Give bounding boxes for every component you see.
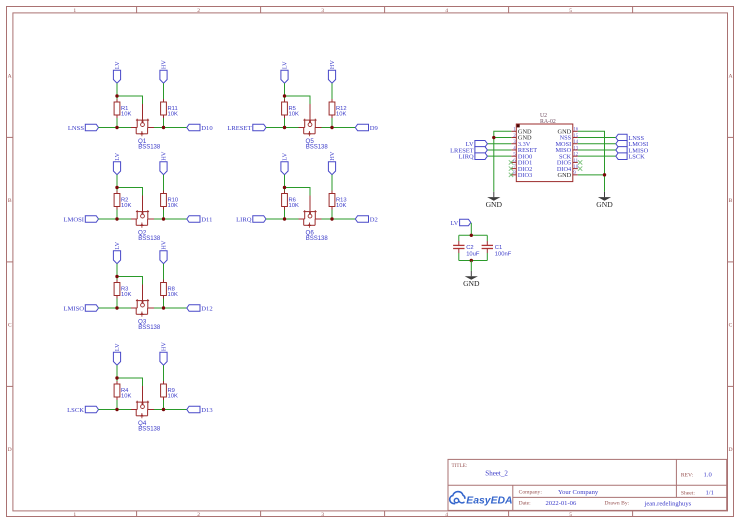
- svg-text:EasyEDA: EasyEDA: [466, 495, 512, 506]
- svg-text:4: 4: [445, 512, 448, 518]
- wire pin2 GND: [494, 137, 512, 139]
- pin 1 GND (left): [511, 128, 532, 136]
- wire to C2: [458, 235, 460, 241]
- wire input port to mosfet: [266, 218, 299, 220]
- pin 11 DIO5 (right): [557, 159, 579, 167]
- junction right on main line: [162, 126, 165, 129]
- svg-text:LSCK: LSCK: [67, 407, 84, 414]
- svg-text:LV: LV: [282, 152, 289, 160]
- net port LMISO: [63, 305, 98, 313]
- no-connect flag: [509, 173, 513, 177]
- net port D13: [187, 406, 214, 414]
- wire cap bottom rail: [459, 260, 488, 262]
- wire LV port to pin: [487, 143, 511, 145]
- wire gate connection: [285, 188, 311, 196]
- svg-text:100nF: 100nF: [495, 252, 512, 258]
- svg-text:Company:: Company:: [519, 489, 543, 495]
- power flag HV Q3 (HV): [160, 240, 168, 264]
- wire resistor to main line (right): [163, 118, 165, 128]
- net port LMOSI: [63, 216, 98, 224]
- no-connect flag: [578, 166, 582, 170]
- svg-text:10: 10: [573, 165, 578, 170]
- wire gate connection: [117, 96, 143, 104]
- no-connect flag: [509, 160, 513, 164]
- wire pin1 GND to ground: [494, 131, 512, 192]
- pin 14 MOSI (right): [555, 140, 578, 148]
- svg-text:A: A: [8, 73, 12, 79]
- transistor Q3 BSS138: [131, 285, 161, 331]
- svg-text:HV: HV: [329, 151, 336, 160]
- transistor Q1 BSS138: [131, 104, 161, 150]
- svg-text:LV: LV: [282, 61, 289, 69]
- junction cap bottom: [470, 259, 473, 262]
- svg-text:D11: D11: [201, 216, 212, 223]
- wire LV flag to rail: [284, 175, 286, 191]
- resistor R6 10K: [282, 191, 299, 210]
- net port LNSS: [616, 134, 645, 142]
- svg-text:10K: 10K: [121, 393, 131, 399]
- svg-text:C1: C1: [495, 245, 502, 251]
- junction GND net left: [492, 136, 495, 139]
- net port LV: [466, 140, 488, 148]
- net port D11: [187, 216, 213, 224]
- wire LIRQ port to pin: [487, 155, 511, 157]
- wire LV port down: [470, 223, 472, 235]
- wire HV flag to resistor: [331, 83, 333, 99]
- wire resistor to main line (left): [116, 400, 118, 410]
- resistor R9 10K: [161, 381, 178, 400]
- wire pin to LMOSI port: [578, 143, 616, 145]
- svg-text:10K: 10K: [168, 111, 178, 117]
- wire gate connection: [117, 378, 143, 386]
- no-connect flag: [509, 166, 513, 170]
- svg-text:Drawn By:: Drawn By:: [605, 500, 630, 506]
- pin 6 DIO1 (left): [511, 159, 532, 167]
- net port D2: [355, 216, 378, 224]
- capacitor C1 100nF: [482, 241, 512, 258]
- wire resistor to main line (right): [331, 118, 333, 128]
- svg-text:D2: D2: [370, 216, 378, 223]
- wire pin16 GND to ground: [578, 131, 605, 192]
- net port D9: [355, 124, 378, 132]
- svg-text:13: 13: [573, 146, 578, 151]
- wire HV flag to resistor: [163, 365, 165, 381]
- resistor R10 10K: [161, 191, 179, 210]
- svg-text:GND: GND: [463, 279, 480, 288]
- svg-text:C: C: [729, 322, 733, 328]
- transistor Q5 BSS138: [299, 104, 329, 150]
- wire LV flag to rail: [116, 365, 118, 381]
- wire resistor to main line (right): [163, 299, 165, 309]
- svg-text:LNSS: LNSS: [68, 125, 84, 132]
- svg-text:HV: HV: [161, 60, 168, 69]
- svg-text:2022-01-06: 2022-01-06: [546, 500, 577, 507]
- junction LV rail: [283, 186, 286, 189]
- transistor Q2 BSS138: [131, 196, 161, 242]
- svg-text:10K: 10K: [121, 111, 131, 117]
- svg-text:U2: U2: [540, 113, 547, 119]
- pin 9 GND (right): [558, 171, 578, 179]
- net port LRESET: [227, 124, 266, 132]
- junction LV rail: [283, 94, 286, 97]
- ground GND (left of U2): [486, 192, 503, 209]
- wire HV flag to resistor: [163, 83, 165, 99]
- wire LV flag to rail: [116, 83, 118, 99]
- svg-text:Sheet:: Sheet:: [681, 490, 695, 496]
- svg-text:1.0: 1.0: [704, 472, 713, 479]
- svg-text:HV: HV: [161, 342, 168, 351]
- junction right on main line: [330, 126, 333, 129]
- power flag HV Q2 (HV): [160, 151, 168, 175]
- svg-text:10K: 10K: [168, 203, 178, 209]
- level shifter Q1: LNSS to D10: [68, 60, 213, 151]
- wire HV flag to resistor: [163, 175, 165, 191]
- svg-text:D12: D12: [201, 305, 212, 312]
- svg-text:3: 3: [321, 8, 324, 14]
- junction right on main line: [162, 217, 165, 220]
- svg-text:16: 16: [573, 128, 578, 133]
- title text: [452, 463, 509, 478]
- wire input port to mosfet: [99, 409, 132, 411]
- wire C1 to bottom rail: [486, 253, 488, 261]
- wire gate connection: [117, 277, 143, 285]
- svg-text:15: 15: [573, 134, 578, 139]
- net port LNSS: [68, 124, 99, 132]
- net port LMOSI: [616, 140, 648, 148]
- IC U2 RA-02: [516, 113, 573, 182]
- date row: [519, 500, 692, 507]
- capacitor C2 10uF: [453, 241, 480, 258]
- svg-text:1: 1: [73, 8, 76, 14]
- svg-text:3: 3: [321, 512, 324, 518]
- svg-text:D: D: [728, 447, 732, 453]
- ground GND (right of U2): [596, 192, 613, 209]
- svg-text:LV: LV: [114, 61, 121, 69]
- svg-text:C2: C2: [466, 245, 473, 251]
- wire mosfet to output port: [154, 307, 187, 309]
- junction left on main line: [115, 126, 118, 129]
- svg-text:RA-02: RA-02: [540, 119, 556, 125]
- svg-text:BSS138: BSS138: [138, 325, 161, 331]
- net port LIRQ: [236, 216, 266, 224]
- power flag LV Q4 (LV): [113, 343, 121, 365]
- pin 2 GND (left): [511, 134, 532, 142]
- company row: [519, 489, 599, 496]
- svg-text:LV: LV: [114, 343, 121, 351]
- wire input port to mosfet: [266, 127, 299, 129]
- svg-text:D13: D13: [201, 407, 213, 414]
- power flag HV Q4 (HV): [160, 342, 168, 366]
- power flag HV Q5 (HV): [328, 60, 336, 84]
- resistor R13 10K: [329, 191, 347, 210]
- svg-text:TITLE:: TITLE:: [452, 463, 468, 469]
- transistor Q4 BSS138: [131, 386, 161, 432]
- level shifter Q2: LMOSI to D11: [63, 151, 212, 242]
- wire pin9 GND: [578, 174, 605, 176]
- svg-text:REV:: REV:: [681, 473, 694, 479]
- svg-text:D9: D9: [370, 125, 379, 132]
- wire input port to mosfet: [99, 218, 132, 220]
- svg-text:LMISO: LMISO: [63, 305, 84, 312]
- junction right on main line: [162, 408, 165, 411]
- svg-text:4: 4: [445, 8, 448, 14]
- svg-text:LMOSI: LMOSI: [63, 216, 84, 223]
- title block: [448, 459, 727, 510]
- svg-text:10K: 10K: [168, 393, 178, 399]
- wire pin to LSCK port: [578, 155, 616, 157]
- pin 8 DIO3 (left): [511, 171, 532, 179]
- svg-text:B: B: [729, 198, 733, 204]
- wire mosfet to output port: [322, 218, 356, 220]
- level shifter Q6: LIRQ to D2: [236, 151, 378, 242]
- svg-text:10K: 10K: [121, 203, 131, 209]
- wire input port to mosfet: [99, 307, 132, 309]
- wire resistor to main line (left): [284, 118, 286, 128]
- svg-text:2: 2: [197, 512, 200, 518]
- resistor R12 10K: [329, 99, 347, 118]
- pin 4 RESET (left): [511, 146, 537, 154]
- pin 7 DIO2 (left): [511, 165, 532, 173]
- svg-text:Your Company: Your Company: [558, 489, 599, 496]
- svg-text:LIRQ: LIRQ: [236, 216, 252, 223]
- wire resistor to main line (right): [163, 400, 165, 410]
- wire resistor to main line (right): [331, 210, 333, 220]
- svg-text:A: A: [728, 73, 732, 79]
- transistor Q6 BSS138: [299, 196, 329, 242]
- svg-text:Sheet_2: Sheet_2: [485, 470, 508, 478]
- net port LSCK: [67, 406, 98, 414]
- power flag LV Q1 (LV): [113, 61, 121, 83]
- svg-text:2: 2: [197, 8, 200, 14]
- junction left on main line: [115, 306, 118, 309]
- wire gate connection: [117, 188, 143, 196]
- wire input port to mosfet: [99, 127, 132, 129]
- rev cell: [681, 472, 713, 479]
- wire mosfet to output port: [154, 218, 187, 220]
- svg-text:10K: 10K: [336, 111, 346, 117]
- wire C2 to bottom rail: [458, 253, 460, 261]
- wire resistor to main line (left): [116, 299, 118, 309]
- wire LRESET port to pin: [487, 149, 511, 151]
- pin 10 DIO4 (right): [557, 165, 579, 173]
- svg-text:jean.redelinghuys: jean.redelinghuys: [644, 500, 692, 507]
- wire cap top rail: [459, 234, 488, 236]
- svg-text:LSCK: LSCK: [628, 153, 645, 160]
- svg-text:C: C: [8, 322, 12, 328]
- wire pin to LMISO port: [578, 149, 616, 151]
- wire mosfet to output port: [322, 127, 356, 129]
- svg-text:HV: HV: [161, 151, 168, 160]
- resistor R5 10K: [282, 99, 299, 118]
- wire pin to LNSS port: [578, 137, 616, 139]
- junction LV rail: [115, 376, 118, 379]
- ground GND (decoupling): [463, 271, 480, 288]
- svg-text:LIRQ: LIRQ: [459, 153, 474, 160]
- svg-text:GND: GND: [558, 172, 572, 179]
- resistor R8 10K: [161, 280, 178, 299]
- svg-text:D: D: [8, 447, 12, 453]
- svg-text:BSS138: BSS138: [138, 236, 161, 242]
- junction left on main line: [115, 217, 118, 220]
- svg-text:B: B: [8, 198, 12, 204]
- svg-text:LV: LV: [450, 220, 458, 227]
- net port LV (decoupling): [450, 219, 470, 227]
- power flag LV Q3 (LV): [113, 241, 121, 263]
- svg-text:DIO3: DIO3: [518, 172, 532, 179]
- level shifter Q4: LSCK to D13: [67, 342, 213, 433]
- svg-text:LV: LV: [114, 241, 121, 249]
- resistor R2 10K: [114, 191, 131, 210]
- pin 12 SCK (right): [559, 153, 579, 161]
- junction left on main line: [115, 408, 118, 411]
- svg-text:10K: 10K: [336, 203, 346, 209]
- wire HV flag to resistor: [331, 175, 333, 191]
- wire LV flag to rail: [116, 175, 118, 191]
- wire gate connection: [285, 96, 311, 104]
- resistor R11 10K: [161, 99, 178, 118]
- junction LV rail: [115, 94, 118, 97]
- power flag HV Q6 (HV): [328, 151, 336, 175]
- junction right on main line: [162, 306, 165, 309]
- svg-text:11: 11: [573, 159, 578, 164]
- svg-text:BSS138: BSS138: [138, 144, 161, 150]
- svg-text:10uF: 10uF: [466, 252, 480, 258]
- svg-text:BSS138: BSS138: [306, 144, 329, 150]
- junction LV rail: [115, 186, 118, 189]
- level shifter Q5: LRESET to D9: [227, 60, 378, 151]
- svg-text:10K: 10K: [289, 111, 299, 117]
- wire to C1: [486, 235, 488, 241]
- wire resistor to main line (left): [284, 210, 286, 220]
- junction LV rail: [115, 275, 118, 278]
- wire resistor to main line (right): [163, 210, 165, 220]
- wire resistor to main line (left): [116, 118, 118, 128]
- resistor R3 10K: [114, 280, 131, 299]
- svg-text:1/1: 1/1: [706, 489, 714, 496]
- pin 16 GND (right): [558, 128, 579, 136]
- pin 5 DIO0 (left): [511, 153, 532, 161]
- svg-text:5: 5: [569, 512, 572, 518]
- wire mosfet to output port: [154, 127, 187, 129]
- net port D10: [187, 124, 214, 132]
- junction left on main line: [283, 217, 286, 220]
- svg-text:5: 5: [569, 8, 572, 14]
- wire LV flag to rail: [116, 264, 118, 280]
- junction right on main line: [330, 217, 333, 220]
- wire resistor to main line (left): [116, 210, 118, 220]
- svg-text:10K: 10K: [289, 203, 299, 209]
- svg-text:HV: HV: [329, 60, 336, 69]
- pin 3 3.3V (left): [511, 140, 530, 148]
- svg-text:14: 14: [573, 140, 578, 145]
- svg-text:10K: 10K: [121, 292, 131, 298]
- wire mosfet to output port: [154, 409, 187, 411]
- net port LRESET: [450, 147, 487, 155]
- svg-text:Date:: Date:: [519, 500, 532, 506]
- junction left on main line: [283, 126, 286, 129]
- svg-text:10K: 10K: [168, 292, 178, 298]
- net port LIRQ: [459, 153, 488, 161]
- svg-text:BSS138: BSS138: [138, 426, 161, 432]
- EasyEDA logo: [450, 492, 513, 507]
- junction GND net right: [603, 173, 606, 176]
- net port LSCK: [616, 153, 645, 161]
- svg-text:LV: LV: [114, 152, 121, 160]
- no-connect flag: [578, 160, 582, 164]
- junction cap top: [470, 234, 473, 237]
- resistor R1 10K: [114, 99, 131, 118]
- pin 15 NSS (right): [560, 134, 579, 142]
- svg-text:GND: GND: [596, 200, 613, 209]
- wire to ground: [470, 261, 472, 271]
- svg-text:1: 1: [73, 512, 76, 518]
- svg-text:D10: D10: [201, 125, 213, 132]
- pin 13 MISO (right): [555, 146, 578, 154]
- power flag LV Q6 (LV): [281, 152, 289, 174]
- power flag LV Q5 (LV): [281, 61, 289, 83]
- svg-text:LRESET: LRESET: [227, 125, 251, 132]
- level shifter Q3: LMISO to D12: [63, 240, 212, 331]
- resistor R4 10K: [114, 381, 131, 400]
- net port D12: [187, 305, 213, 313]
- svg-text:HV: HV: [161, 240, 168, 249]
- svg-text:BSS138: BSS138: [306, 236, 329, 242]
- sheet cell: [681, 489, 714, 496]
- power flag HV Q1 (HV): [160, 60, 168, 84]
- svg-text:12: 12: [573, 153, 578, 158]
- wire LV flag to rail: [284, 83, 286, 99]
- power flag LV Q2 (LV): [113, 152, 121, 174]
- net port LMISO: [616, 147, 649, 155]
- svg-text:GND: GND: [486, 200, 503, 209]
- wire HV flag to resistor: [163, 264, 165, 280]
